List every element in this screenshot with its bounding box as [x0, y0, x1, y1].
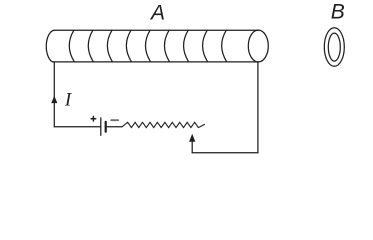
- current arrow I on left wire: [51, 96, 57, 103]
- wire left vertical (coil to battery): [53, 62, 55, 127]
- battery - sign: [111, 119, 118, 121]
- solenoid A turn arc 2: [88, 30, 93, 62]
- ring B inner ellipse: [328, 33, 340, 61]
- solenoid A top line: [54, 29, 258, 31]
- solenoid A turn arc 3: [107, 30, 112, 62]
- svg-text:B: B: [331, 1, 345, 24]
- rheostat resistance element (zigzag): [122, 122, 205, 127]
- wire right vertical (coil to bottom): [257, 62, 259, 153]
- solenoid A turn arc 6: [164, 30, 169, 62]
- solenoid A turn arc 9: [222, 30, 227, 62]
- ring B outer ellipse: [324, 28, 344, 67]
- solenoid A bottom line: [53, 61, 259, 63]
- rheostat wiper stem: [191, 141, 193, 153]
- solenoid A turn arc 1: [69, 30, 74, 62]
- solenoid A turn arc 4: [126, 30, 131, 62]
- rheostat wiper arrowhead: [189, 134, 195, 142]
- battery + sign: [91, 116, 96, 121]
- svg-text:A: A: [149, 2, 165, 25]
- solenoid A right end ellipse: [248, 30, 268, 62]
- battery short plate (-): [105, 122, 107, 132]
- wire battery to rheostat: [106, 126, 122, 128]
- wire bottom right: [192, 152, 258, 154]
- battery long plate (+): [100, 118, 102, 135]
- solenoid A turn arc 7: [184, 30, 189, 62]
- solenoid A turn arc 8: [203, 30, 208, 62]
- wire bottom left (to battery +): [54, 126, 100, 128]
- solenoid A turn arc 5: [145, 30, 150, 62]
- solenoid A left end cap arc: [46, 30, 54, 62]
